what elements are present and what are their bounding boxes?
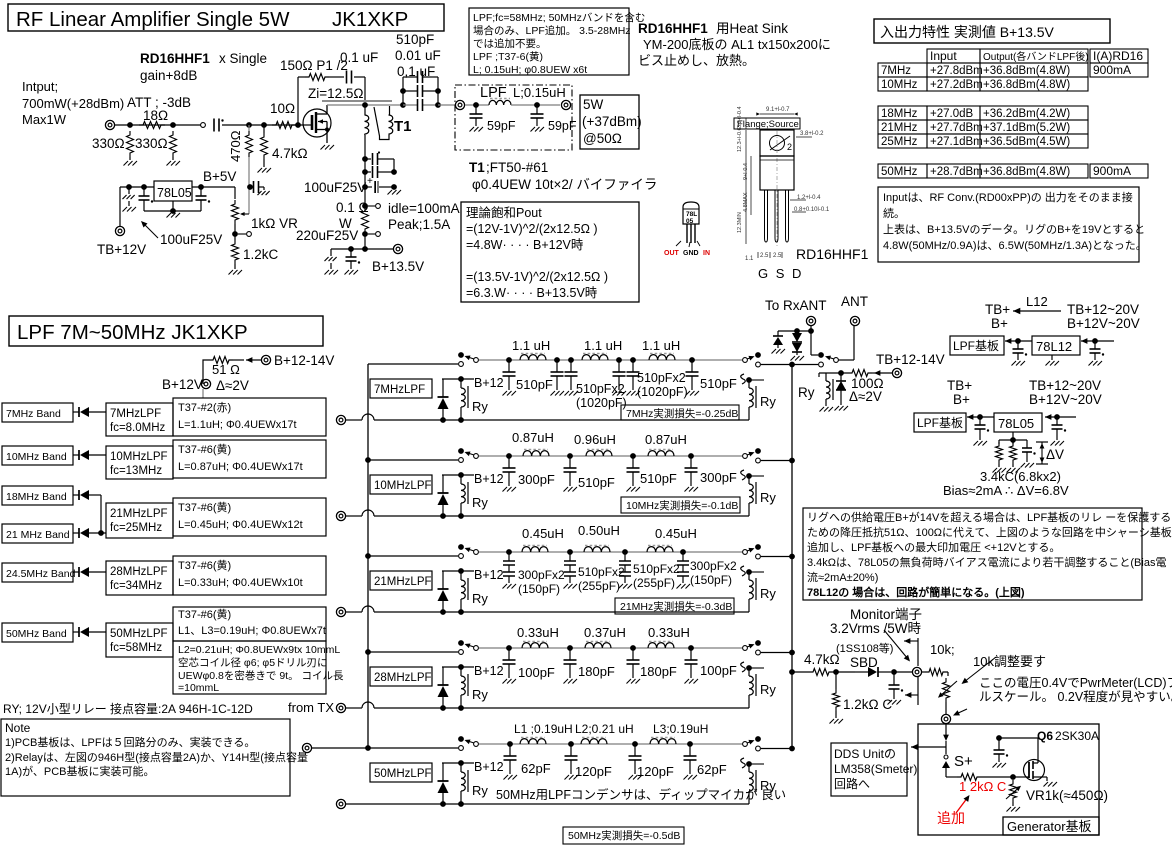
svg-text:x Single: x Single: [219, 51, 267, 66]
table2 18/21/25MHz: [878, 106, 927, 120]
note box LPF fc=58MHz: [469, 8, 629, 75]
coil spec box T37-#6 50MHz: [173, 607, 326, 641]
svg-text:Max1W: Max1W: [22, 112, 67, 127]
svg-text:B+: B+: [991, 316, 1008, 331]
TB+12V connector: [115, 226, 124, 235]
svg-text:ビス止めし、放熱。: ビス止めし、放熱。: [638, 53, 755, 68]
svg-text:TB+: TB+: [947, 378, 972, 393]
node monitor1: [833, 669, 839, 675]
svg-text:+37.1dBm(5.2W): +37.1dBm(5.2W): [983, 122, 1070, 134]
node monitor2: [891, 669, 897, 675]
node supply right: [391, 169, 397, 175]
svg-text:Ry: Ry: [798, 385, 815, 400]
svg-text:78L05: 78L05: [998, 416, 1034, 431]
row5 50MHz filter line: [479, 743, 742, 745]
svg-text:回路へ: 回路へ: [834, 776, 870, 791]
svg-text:追加し、LPF基板への最大印加電圧 <+12Vとする。: 追加し、LPF基板への最大印加電圧 <+12Vとする。: [807, 540, 1060, 554]
svg-text:LM358(Smeter): LM358(Smeter): [834, 762, 917, 776]
resistor 100ohm: [818, 373, 820, 377]
node A4: [261, 122, 267, 128]
svg-text:10MHz Band: 10MHz Band: [6, 451, 67, 463]
svg-text:理論飽和Pout: 理論飽和Pout: [466, 205, 542, 220]
row5 50MHz inductor at x594: [581, 739, 607, 744]
arrow to DDS: [911, 744, 918, 751]
row1 7MHz flyback diode: [442, 379, 444, 397]
svg-text:300pF: 300pF: [700, 470, 737, 485]
svg-text:+36.8dBm(4.8W): +36.8dBm(4.8W): [983, 65, 1070, 77]
row4 28MHz output relay switch: [743, 646, 748, 651]
row5 50MHz B+12 rail: [442, 762, 474, 764]
svg-text:100uF25V: 100uF25V: [304, 180, 366, 195]
svg-text:S+: S+: [954, 753, 973, 770]
band box 50MHz Band: [2, 623, 73, 642]
ground Q1 source: [321, 145, 326, 150]
row3 21MHz capacitor 300pFx2 at x509: [506, 549, 512, 555]
svg-text:7MHzLPF: 7MHzLPF: [374, 384, 425, 396]
input note box: [878, 187, 1139, 262]
svg-text:330Ω: 330Ω: [92, 136, 125, 151]
svg-text:120pF: 120pF: [637, 764, 674, 779]
connector RxANT: [806, 316, 815, 325]
row2 10MHz right relay Ry: [741, 470, 746, 480]
svg-text:Ry: Ry: [760, 490, 776, 505]
svg-text:Input: Input: [930, 49, 957, 63]
node B+ rail: [362, 246, 368, 252]
regulator ground rail: [144, 210, 201, 212]
svg-text:300pFx2: 300pFx2: [690, 559, 737, 573]
svg-text:B+12: B+12: [474, 568, 504, 582]
svg-text:+28.7dBm: +28.7dBm: [930, 166, 983, 178]
svg-text:78L12: 78L12: [1036, 339, 1072, 354]
open terminal: [201, 123, 206, 128]
row5 50MHz capacitor 62pF at x690: [687, 741, 693, 747]
row3 21MHz capacitor 300pFx2 at x683: [680, 549, 686, 555]
svg-text:Generator基板: Generator基板: [1007, 819, 1092, 834]
svg-text:T37-#2(赤): T37-#2(赤): [178, 401, 231, 414]
svg-text:L; 0.15uH; φ0.8UEW x6t: L; 0.15uH; φ0.8UEW x6t: [473, 64, 587, 76]
row4 28MHz input relay switch: [458, 640, 464, 646]
svg-text:=10mmL: =10mmL: [178, 682, 219, 694]
svg-text:TB+12V: TB+12V: [97, 242, 146, 257]
LPF output connector: [561, 100, 570, 109]
svg-text:(150pF): (150pF): [690, 573, 732, 587]
svg-text:RD16HHF1: RD16HHF1: [638, 21, 708, 36]
svg-text:+36.2dBm(4.2W): +36.2dBm(4.2W): [983, 108, 1070, 120]
svg-text:では追加不要。: では追加不要。: [473, 37, 547, 50]
coil spec box T37-#6 10MHz: [173, 440, 326, 478]
row2 10MHz capacitor 510pF at x633: [630, 453, 636, 459]
wire RxANT: [810, 326, 812, 331]
LPF dash-dot box: [455, 85, 572, 150]
capacitor 100uF25V supply: [362, 184, 368, 190]
transistor Q1 RD16HHF1 MOSFET: [303, 109, 331, 137]
node VR bottom: [232, 231, 238, 237]
svg-text:900mA: 900mA: [1093, 164, 1131, 178]
arrow monitor small: [904, 638, 910, 644]
svg-text:ルスケール。 0.2V程度が見やすい。: ルスケール。 0.2V程度が見やすい。: [979, 689, 1172, 704]
svg-text:62pF: 62pF: [521, 761, 551, 776]
test point idle: [362, 203, 368, 209]
svg-text:B+12: B+12: [474, 664, 504, 678]
svg-text:=(12V-1V)^2/(2x12.5Ω ): =(12V-1V)^2/(2x12.5Ω ): [466, 222, 598, 236]
wire 78L05 right: [1045, 414, 1051, 420]
table header box 入出力特性: [874, 19, 1110, 43]
svg-text:510pF: 510pF: [700, 376, 737, 391]
svg-text:fc=58MHz: fc=58MHz: [110, 642, 162, 654]
output box 5W: [580, 95, 639, 149]
connector B+12-14V: [261, 355, 270, 364]
svg-text:+36.5dBm(4.5W): +36.5dBm(4.5W): [983, 136, 1070, 148]
capacitor C in1: [126, 184, 132, 190]
svg-text:JK1XKP: JK1XKP: [332, 8, 408, 31]
svg-text:用Heat Sink: 用Heat Sink: [716, 21, 788, 36]
svg-text:1.2kC: 1.2kC: [243, 247, 279, 262]
svg-text:Zi=12.5Ω: Zi=12.5Ω: [308, 86, 364, 101]
capacitor 220uF: [330, 249, 332, 256]
svg-text:24.5MHz Band: 24.5MHz Band: [6, 568, 76, 580]
svg-text:510pFx2: 510pFx2: [578, 565, 625, 579]
svg-text:0.1 uF: 0.1 uF: [340, 50, 378, 65]
svg-text:=(13.5V-1V)^2/(2x12.5Ω ): =(13.5V-1V)^2/(2x12.5Ω ): [466, 270, 608, 284]
svg-text:510pFx2: 510pFx2: [637, 371, 686, 385]
svg-text:700mW(+28dBm): 700mW(+28dBm): [22, 96, 124, 111]
box LPF kiban 2: [914, 413, 966, 432]
coil spec box T37-#2: [173, 398, 326, 436]
svg-text:fc=25MHz: fc=25MHz: [110, 522, 162, 534]
svg-text:+27.7dBm: +27.7dBm: [930, 122, 983, 134]
row2 10MHz inductor at x661: [648, 451, 674, 456]
svg-text:0.37uH: 0.37uH: [584, 625, 626, 640]
TO-92 package 78L05 drawing: [683, 202, 699, 224]
svg-text:28MHzLPF: 28MHzLPF: [110, 566, 168, 578]
row2 10MHz output pole line: [756, 458, 761, 463]
resistor 1.2k generator: [946, 776, 957, 778]
arrow generator conn: [955, 709, 967, 715]
svg-text:ための降圧抵抗51Ω、100Ωに代えて、上図のような回路を中: ための降圧抵抗51Ω、100Ωに代えて、上図のような回路を中シャーシ基板に: [807, 525, 1172, 539]
svg-text:LPF基板: LPF基板: [953, 339, 999, 353]
row1 7MHz relay coil Ry: [458, 376, 464, 382]
svg-text:LPF;fc=58MHz; 50MHzバンドを含む: LPF;fc=58MHz; 50MHzバンドを含む: [473, 11, 645, 24]
Pout equations box: [461, 202, 639, 302]
row5 50MHz output relay switch: [743, 742, 748, 747]
svg-text:RY; 12V小型リレー 接点容量:2A 946H-: RY; 12V小型リレー 接点容量:2A 946H-1C-12D: [3, 701, 253, 716]
svg-text:300pFx2: 300pFx2: [518, 568, 565, 582]
LPF select box 7MHzLPF: [106, 403, 173, 436]
svg-text:(+37dBm): (+37dBm): [582, 114, 642, 129]
svg-text:VR1k(≈450Ω): VR1k(≈450Ω): [1026, 788, 1108, 803]
svg-text:B+: B+: [953, 392, 970, 407]
svg-text:YM-200底板の AL1 tx150x200に: YM-200底板の AL1 tx150x200に: [643, 37, 831, 52]
band box 24.5MHz Band: [2, 563, 73, 582]
svg-text:12.3+l-0.6: 12.3+l-0.6: [737, 127, 743, 152]
svg-text:+27.0dB: +27.0dB: [930, 108, 973, 120]
inductor L12 line: [1013, 308, 1020, 315]
row4 28MHz inductor at x661: [648, 643, 674, 648]
row2 10MHz label box: [370, 475, 432, 494]
svg-text:510pF: 510pF: [578, 475, 615, 490]
row5 50MHz inductor at x533: [520, 739, 546, 744]
svg-text:Ry: Ry: [472, 399, 488, 414]
row1 7MHz label box: [370, 379, 432, 398]
row2 10MHz inductor at x599: [586, 451, 612, 456]
row2 10MHz B+12 rail: [442, 474, 474, 476]
svg-text:78L05: 78L05: [157, 186, 192, 200]
svg-text:3.2Vrms /5W時: 3.2Vrms /5W時: [830, 621, 922, 636]
row2 10MHz input relay switch: [458, 448, 464, 454]
svg-text:50MHz実測損失=-0.5dB: 50MHz実測損失=-0.5dB: [568, 829, 680, 842]
resistor 1.2k monitor: [835, 672, 837, 689]
node gate: [295, 122, 301, 128]
row5 50MHz relay rail: [437, 803, 749, 805]
connector ANT: [850, 316, 859, 325]
LPF select box 50MHzLPF: [106, 623, 173, 657]
svg-text:(1020pF): (1020pF): [637, 385, 688, 399]
svg-text:+36.8dBm(4.8W): +36.8dBm(4.8W): [983, 79, 1070, 91]
bypass capacitor 2: [362, 169, 368, 175]
band box 7MHz Band: [2, 403, 73, 422]
svg-text:100pF: 100pF: [518, 665, 555, 680]
bypass capacitor 0.01uF supply: [362, 156, 368, 162]
capacitor output cap: [198, 184, 204, 190]
row3 21MHz inductor at x660: [647, 547, 673, 552]
row1 7MHz inductor at x533: [520, 355, 546, 360]
svg-text:OUT: OUT: [664, 250, 680, 257]
row4 28MHz capacitor 180pF at x633: [630, 645, 636, 651]
svg-text:1.2kΩ C: 1.2kΩ C: [843, 697, 892, 712]
row2 10MHz output relay switch: [743, 454, 748, 459]
svg-text:L=1.1uH; Φ0.4UEWx17t: L=1.1uH; Φ0.4UEWx17t: [178, 419, 297, 431]
coil spec box L2 50MHz: [173, 641, 326, 694]
svg-text:62pF: 62pF: [697, 762, 727, 777]
row2 10MHz capacitor 300pF at x691: [688, 453, 694, 459]
svg-text:0.87uH: 0.87uH: [645, 432, 687, 447]
svg-text:21MHz: 21MHz: [881, 122, 918, 134]
svg-text:TB+12~20V: TB+12~20V: [1067, 302, 1139, 317]
svg-text:T37-#6(黄): T37-#6(黄): [178, 500, 231, 514]
diode SBD: [836, 671, 855, 673]
svg-text:3.8+l-0.2: 3.8+l-0.2: [800, 131, 824, 137]
svg-text:+: +: [367, 176, 373, 187]
wire drain line: [327, 104, 402, 106]
svg-text:Δ≈2V: Δ≈2V: [849, 389, 882, 404]
svg-text:2SK30A: 2SK30A: [1055, 729, 1099, 743]
svg-text:0.8+0.10l-0.1: 0.8+0.10l-0.1: [794, 207, 830, 213]
wire 78L05 left: [967, 414, 973, 420]
svg-text:1.1 uH: 1.1 uH: [584, 338, 622, 353]
svg-text:RD16HHF1: RD16HHF1: [796, 246, 869, 262]
svg-text:T1: T1: [394, 118, 412, 135]
svg-text:510pF: 510pF: [640, 471, 677, 486]
capacitor 78L12 right: [1094, 341, 1096, 349]
svg-text:Peak;1.5A: Peak;1.5A: [388, 217, 450, 232]
svg-text:120pF: 120pF: [575, 764, 612, 779]
svg-text:L3;0.19uH: L3;0.19uH: [653, 722, 708, 736]
svg-text:2.5: 2.5: [773, 253, 782, 259]
svg-text:7MHzLPF: 7MHzLPF: [110, 408, 161, 420]
svg-text:T37-#6(黄): T37-#6(黄): [178, 607, 231, 621]
connector row5 input: [302, 743, 311, 752]
svg-text:2: 2: [787, 142, 792, 152]
TO-220 dimension lines: [760, 113, 794, 115]
svg-text:流≈2mA±20%): 流≈2mA±20%): [807, 570, 878, 584]
svg-text:L=0.45uH; Φ0.4UEWx12t: L=0.45uH; Φ0.4UEWx12t: [178, 519, 303, 531]
LPF select box 21MHzLPF: [106, 503, 173, 538]
svg-text:2)Relayは、左図の946H型(接点容量2A)か、Y14: 2)Relayは、左図の946H型(接点容量2A)か、Y14H型(接点容量: [5, 750, 308, 764]
svg-text:L2;0.21 uH: L2;0.21 uH: [575, 722, 634, 736]
svg-text:2.5: 2.5: [760, 253, 769, 259]
row5 50MHz capacitor 120pF at x635: [632, 741, 638, 747]
svg-text:Bias≈2mA ∴ ΔV=6.8V: Bias≈2mA ∴ ΔV=6.8V: [943, 483, 1069, 498]
table1 measurement 7/10MHz: [927, 49, 980, 63]
row5 50MHz relay coil Ry: [458, 760, 464, 766]
row1 7MHz B+12 rail: [442, 378, 474, 380]
svg-text:Ry: Ry: [760, 682, 776, 697]
svg-text:+27.2dBm: +27.2dBm: [930, 79, 983, 91]
monitor connector: [894, 671, 912, 673]
svg-text:追加: 追加: [937, 810, 965, 826]
svg-text:0.33uH: 0.33uH: [648, 625, 690, 640]
svg-text:470Ω: 470Ω: [228, 130, 243, 162]
node bus row4: [365, 649, 371, 655]
row1 7MHz inductor at x662: [649, 355, 675, 360]
svg-text:50MHzLPF: 50MHzLPF: [110, 628, 168, 640]
arrow lower: [905, 692, 911, 698]
LPF select box 28MHzLPF: [106, 561, 173, 595]
row3 21MHz capacitor 510pFx2 at x625: [622, 549, 628, 555]
diode D 10MHz: [73, 454, 79, 456]
svg-text:L1、L3=0.19uH; Φ0.8UEWx7t: L1、L3=0.19uH; Φ0.8UEWx7t: [178, 625, 326, 637]
svg-text:+36.8dBm(4.8W): +36.8dBm(4.8W): [983, 166, 1070, 178]
svg-text:21MHzLPF: 21MHzLPF: [110, 508, 168, 520]
svg-text:TB+12-14V: TB+12-14V: [876, 352, 945, 367]
row2 10MHz capacitor 510pF at x570: [567, 453, 573, 459]
LPF inductor L 0.15uH: [465, 104, 489, 106]
svg-text:=4.8W· · · · B+12V時: =4.8W· · · · B+12V時: [466, 238, 584, 252]
row2 10MHz capacitor 300pF at x509: [506, 453, 512, 459]
svg-text:180pF: 180pF: [578, 664, 615, 679]
svg-text:150Ω P1 /2: 150Ω P1 /2: [280, 58, 348, 73]
capacitor monitor: [893, 672, 895, 685]
row4 28MHz capacitor 100pF at x509: [506, 645, 512, 651]
diode D 28MHz: [73, 571, 79, 573]
svg-text:10MHz: 10MHz: [881, 79, 918, 91]
node out2: [435, 102, 441, 108]
row4 28MHz flyback diode: [442, 667, 444, 685]
capacitor 59pF C1: [475, 105, 477, 114]
svg-text:B+12V~20V: B+12V~20V: [1067, 316, 1140, 331]
band box 18MHz Band: [2, 486, 73, 505]
connector row1 relay rail: [336, 415, 345, 424]
svg-text:10MHzLPF: 10MHzLPF: [374, 480, 432, 492]
row3 21MHz output relay switch: [743, 550, 748, 555]
test point 2: [362, 231, 368, 237]
svg-text:B+13.5V: B+13.5V: [372, 259, 424, 274]
row3 21MHz inductor at x597: [584, 547, 610, 552]
row3 21MHz B+12 rail: [442, 570, 474, 572]
row1 7MHz capacitor 510pF at x509: [506, 357, 512, 363]
row4 28MHz B+12 rail: [442, 666, 474, 668]
svg-text:21MHzLPF: 21MHzLPF: [374, 576, 432, 588]
svg-text:ΔV: ΔV: [1046, 447, 1064, 462]
regulator 78L05 box U2: [154, 181, 192, 201]
row5 50MHz output pole line: [756, 746, 761, 751]
capacitor Q6 drain: [999, 737, 1038, 739]
capacitor 100uF input: [141, 184, 147, 190]
row1 7MHz loss box: [621, 405, 739, 420]
row3 21MHz loss box: [615, 598, 734, 614]
svg-text:I(A)RD16: I(A)RD16: [1093, 49, 1143, 63]
svg-text:1kΩ VR: 1kΩ VR: [251, 216, 298, 231]
diode D 21MHz: [73, 532, 79, 534]
row1 pole to ANT relay: [792, 364, 818, 366]
coupling capacitor: [213, 119, 215, 132]
svg-text:上表は、B+13.5Vのデータ。リグのB+を19Vとすると: 上表は、B+13.5Vのデータ。リグのB+を19Vとすると: [883, 222, 1145, 236]
svg-text:(255pF): (255pF): [633, 576, 675, 590]
svg-text:続。: 続。: [883, 206, 905, 220]
node A3: [246, 122, 252, 128]
svg-text:21MHz実測損失=-0.3dB: 21MHz実測損失=-0.3dB: [620, 600, 732, 613]
svg-text:18MHz Band: 18MHz Band: [6, 491, 67, 503]
svg-text:0.1 Ω: 0.1 Ω: [336, 200, 369, 215]
svg-text:ここの電圧0.4VでPwrMeter(LCD)フ: ここの電圧0.4VでPwrMeter(LCD)フ: [979, 676, 1172, 690]
row4 28MHz inductor at x535: [522, 643, 548, 648]
row3 21MHz flyback diode: [442, 571, 444, 589]
row3 21MHz label box: [370, 571, 432, 590]
row5 50MHz inductor at x663: [650, 739, 676, 744]
arrow tsuika: [956, 797, 968, 813]
svg-text:1 2kΩ C: 1 2kΩ C: [959, 779, 1006, 794]
svg-text:TB+: TB+: [985, 302, 1010, 317]
svg-text:3.2+l-0.4: 3.2+l-0.4: [737, 106, 743, 128]
svg-text:(150pF): (150pF): [518, 582, 560, 596]
row5 50MHz input relay switch: [458, 736, 464, 742]
svg-text:Ry: Ry: [472, 687, 488, 702]
LPF select box 10MHzLPF: [106, 446, 173, 479]
svg-text:gain+8dB: gain+8dB: [140, 68, 197, 83]
wire output bus: [791, 365, 793, 749]
note box: [1, 719, 290, 796]
svg-text:IN: IN: [703, 250, 710, 257]
potentiometer 10k: [947, 672, 949, 676]
svg-text:0.50uH: 0.50uH: [578, 523, 620, 538]
svg-text:LPF基板: LPF基板: [917, 416, 963, 430]
svg-text:B+12V~20V: B+12V~20V: [1029, 392, 1102, 407]
wire TX bus: [367, 364, 369, 748]
svg-text:50MHzLPF: 50MHzLPF: [374, 768, 432, 780]
node LPF1: [473, 102, 479, 108]
svg-text:9+l-0.4: 9+l-0.4: [743, 163, 749, 180]
svg-text:78L: 78L: [686, 211, 697, 218]
potentiometer 1k VR: [232, 200, 239, 224]
resistor 51ohm supply: [203, 360, 209, 384]
svg-text:from TX: from TX: [288, 700, 334, 715]
row1 7MHz capacitor 510pFx2a at x557: [554, 357, 560, 363]
svg-text:Intput;: Intput;: [22, 79, 58, 94]
wire input line: [115, 124, 202, 126]
svg-text:0.45uH: 0.45uH: [655, 526, 697, 541]
row2 10MHz loss box: [621, 497, 740, 513]
svg-text:4.7kΩ: 4.7kΩ: [272, 146, 308, 161]
svg-text:1A)が、PCB基板に実装可能。: 1A)が、PCB基板に実装可能。: [5, 764, 155, 778]
svg-text:Inputは、RF Conv.(RD00xPP)の 出力をそ: Inputは、RF Conv.(RD00xPP)の 出力をそのまま接: [883, 190, 1133, 204]
svg-text:12.3MIN: 12.3MIN: [737, 212, 743, 233]
svg-text:G S D: G S D: [758, 266, 803, 281]
row1 7MHz inductor at x595: [582, 355, 608, 360]
band box 10MHz Band: [2, 446, 73, 465]
svg-text:Ry: Ry: [760, 586, 776, 601]
row3 21MHz output pole line: [756, 554, 761, 559]
row1 7MHz relay rail: [437, 419, 749, 421]
